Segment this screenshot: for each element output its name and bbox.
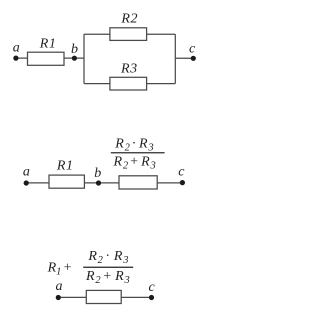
svg-text:a: a [13, 40, 20, 55]
svg-text:c: c [178, 165, 185, 180]
svg-text:R2+R3: R2+R3 [112, 154, 156, 171]
svg-text:R2+R3: R2+R3 [85, 269, 131, 286]
svg-text:c: c [148, 280, 155, 295]
svg-text:R1: R1 [56, 159, 74, 174]
svg-text:b: b [71, 42, 78, 57]
svg-text:a: a [23, 164, 30, 179]
svg-text:+: + [63, 261, 72, 276]
svg-text:a: a [56, 279, 63, 294]
svg-text:R3: R3 [120, 62, 138, 77]
svg-text:R1: R1 [47, 261, 62, 278]
svg-text:c: c [189, 41, 196, 56]
svg-text:R2·R3: R2·R3 [114, 137, 154, 154]
svg-text:R2·R3: R2·R3 [87, 249, 129, 266]
svg-text:b: b [94, 166, 101, 181]
svg-text:R2: R2 [120, 12, 138, 27]
svg-text:R1: R1 [39, 36, 57, 51]
